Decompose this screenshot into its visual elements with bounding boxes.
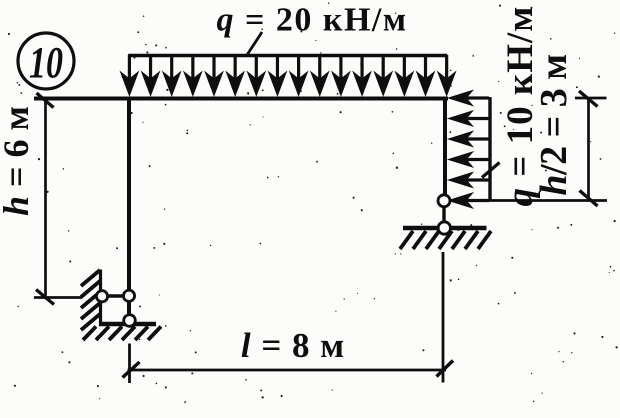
- h top tick: [37, 93, 54, 108]
- tick on side load line: [482, 163, 500, 178]
- left support ground hatching: [83, 327, 161, 341]
- l right tick: [437, 361, 454, 377]
- svg-text:l = 8 м: l = 8 м: [241, 326, 345, 365]
- h bottom tick: [36, 290, 54, 305]
- left column: [127, 98, 131, 317]
- l left tick: [123, 362, 140, 378]
- right support link: [442, 201, 445, 228]
- h/2 top extension: [575, 97, 607, 100]
- l dimension line: [128, 369, 447, 372]
- h dimension line: [44, 99, 47, 298]
- top beam with left extension: [34, 97, 448, 101]
- right support top pin: [438, 195, 450, 207]
- l dimension left extension: [128, 344, 131, 384]
- side distributed load line: [488, 97, 491, 201]
- top distributed load line: [128, 54, 447, 57]
- side load bottom extension line: [452, 199, 607, 202]
- left support pin at column: [123, 290, 134, 301]
- l dimension right extension: [442, 252, 445, 383]
- side load arrows (6): [449, 91, 490, 209]
- h/2 dimension line: [587, 98, 590, 201]
- svg-text:q = 20 кН/м: q = 20 кН/м: [216, 2, 407, 39]
- right column: [443, 97, 447, 202]
- right support bottom pin: [438, 222, 450, 234]
- svg-text:10: 10: [29, 38, 63, 87]
- top load arrows (16): [121, 55, 456, 96]
- svg-text:h = 6 м: h = 6 м: [0, 106, 36, 216]
- left support wall hatching: [81, 270, 100, 330]
- left support bottom pin: [124, 315, 136, 327]
- left support pin at wall: [96, 291, 107, 302]
- left support wall: [99, 270, 102, 326]
- leader line to top load: [247, 32, 262, 55]
- task number circle 10: [18, 33, 74, 89]
- left support link bar: [102, 294, 129, 298]
- h/2 top tick: [579, 91, 598, 107]
- h bottom extension: [34, 296, 82, 299]
- right support ground: [403, 226, 487, 231]
- svg-text:h/2 = 3 м: h/2 = 3 м: [533, 54, 575, 195]
- right support ground hatching: [400, 231, 491, 249]
- h/2 bottom tick: [580, 191, 598, 207]
- left support ground: [99, 322, 156, 326]
